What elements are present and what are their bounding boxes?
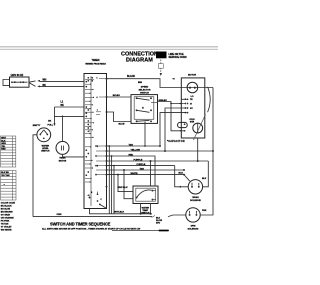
wires feeding motor terminals	[181, 98, 186, 100]
border double line	[0, 46, 218, 48]
svg-text:2: 2	[97, 146, 98, 148]
svg-text:ORN: ORN	[57, 214, 62, 216]
timer box	[84, 74, 107, 209]
legend table 2	[1, 171, 17, 201]
svg-text:BLACK: BLACK	[127, 75, 135, 78]
svg-text:SOLENOID: SOLENOID	[190, 200, 201, 202]
wire from water level switch left	[33, 135, 37, 217]
svg-text:BRN: BRN	[138, 82, 143, 84]
svg-text:WHT: WHT	[1, 138, 6, 140]
svg-text:WASH: WASH	[192, 196, 199, 199]
svg-text:COLOR CODE: COLOR CODE	[1, 203, 16, 205]
svg-text:120V 60 HZ: 120V 60 HZ	[11, 74, 24, 77]
wire below motor box	[197, 138, 199, 161]
svg-text:WH WHITE: WH WHITE	[1, 230, 12, 232]
motor box	[181, 78, 205, 138]
water temp selector box	[133, 186, 158, 204]
wire drop to water level switch	[54, 107, 56, 124]
drop wires to selector	[117, 174, 119, 176]
svg-text:VT VIOLET: VT VIOLET	[1, 227, 12, 229]
svg-text:WTR: WTR	[190, 122, 195, 124]
svg-text:TN TAN: TN TAN	[1, 223, 9, 226]
wire BLUE timer to speed switch	[107, 112, 132, 122]
svg-text:TIMER: TIMER	[59, 158, 66, 160]
timer terminals right column	[106, 78, 108, 80]
wire second feed	[55, 115, 85, 117]
cord fork wires	[29, 81, 36, 87]
power cord plug box	[10, 77, 30, 87]
harness bundle down right side of timer	[109, 146, 114, 214]
legend table 1	[1, 136, 16, 167]
svg-text:BLK: BLK	[202, 178, 207, 180]
timer inner rail	[90, 76, 92, 206]
svg-text:MOTOR: MOTOR	[59, 161, 67, 163]
svg-text:BU BLUE: BU BLUE	[1, 209, 11, 211]
svg-text:SWITCH: SWITCH	[41, 151, 50, 153]
dashed pointer to service-cord line	[160, 60, 162, 73]
svg-text:5: 5	[97, 165, 98, 167]
svg-text:7: 7	[97, 110, 98, 112]
svg-text:SOLENOID: SOLENOID	[188, 228, 199, 230]
timer terminals left column	[85, 81, 87, 83]
svg-text:SERVICE CORD: SERVICE CORD	[169, 56, 187, 59]
svg-text:SELECTOR: SELECTOR	[139, 89, 151, 91]
svg-text:FULL: FULL	[48, 124, 54, 126]
timer motor	[62, 116, 64, 141]
svg-text:BR BROWN: BR BROWN	[1, 212, 13, 214]
svg-text:PK PINK: PK PINK	[1, 221, 10, 223]
wire timer motor to timer	[63, 154, 85, 157]
svg-text:BK BLACK: BK BLACK	[1, 205, 12, 208]
wire right bus down to spin solenoid	[200, 88, 213, 216]
svg-text:GY GRAY: GY GRAY	[1, 214, 11, 217]
svg-text:DIAGRAM: DIAGRAM	[126, 57, 153, 63]
svg-text:LO: LO	[191, 96, 194, 98]
svg-text:PNK: PNK	[202, 210, 207, 212]
svg-text:1: 1	[97, 77, 98, 79]
svg-text:SPD: SPD	[156, 222, 161, 224]
svg-text:SPIN: SPIN	[191, 225, 196, 227]
black legend swatch	[156, 52, 167, 59]
svg-text:BLUE: BLUE	[119, 123, 125, 125]
motor terminals	[184, 98, 194, 113]
svg-text:RED: RED	[1, 149, 6, 151]
drops from selector bottom	[140, 204, 142, 214]
bottom rule	[112, 229, 169, 231]
svg-text:SPEED: SPEED	[141, 86, 149, 88]
wire into spin solenoid	[168, 215, 186, 217]
svg-text:*CAPACITOR: *CAPACITOR	[167, 140, 185, 143]
speed selector switch box	[131, 95, 158, 124]
svg-text:SWITCH: SWITCH	[140, 92, 149, 94]
svg-text:VIEWED FROM REAR: VIEWED FROM REAR	[85, 63, 106, 66]
svg-text:TIMER: TIMER	[91, 58, 99, 62]
svg-text:GRN: GRN	[1, 143, 6, 145]
svg-text:BK: BK	[61, 105, 65, 107]
svg-text:MOTOR: MOTOR	[188, 75, 197, 77]
motor winding circle	[187, 82, 198, 93]
svg-text:SWITCH AND TIMER SEQUENCE: SWITCH AND TIMER SEQUENCE	[50, 222, 111, 227]
cord strain relief tail	[3, 80, 10, 86]
svg-text:EMPTY: EMPTY	[33, 125, 41, 127]
capacitor bracket	[208, 87, 211, 112]
svg-text:BLK BU: BLK BU	[1, 172, 9, 174]
svg-text:BLK: BLK	[1, 140, 6, 142]
svg-text:WHT-BLK: WHT-BLK	[118, 187, 129, 189]
svg-text:VIO TAN: VIO TAN	[1, 174, 10, 177]
timer internal contacts texture	[85, 79, 107, 182]
svg-text:BK: BK	[48, 120, 52, 122]
svg-text:OR ORANGE: OR ORANGE	[1, 217, 14, 220]
